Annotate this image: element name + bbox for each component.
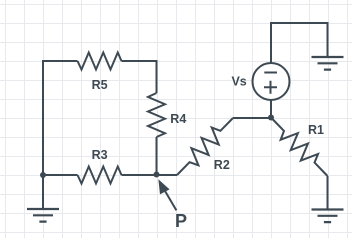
arrow pointing to node P [165, 191, 177, 211]
svg-text:R1: R1 [308, 123, 324, 137]
junction dot [40, 172, 46, 178]
svg-text:R4: R4 [170, 112, 186, 126]
voltage source Vs [253, 63, 290, 100]
svg-text:R5: R5 [92, 78, 108, 92]
resistor R2 [177, 118, 233, 175]
wire [43, 174, 78, 176]
ground [312, 57, 344, 70]
resistor R5 [78, 53, 122, 70]
svg-text:P: P [175, 211, 187, 231]
resistor R4 [148, 93, 165, 137]
svg-text:R3: R3 [92, 148, 108, 162]
svg-text:R2: R2 [214, 158, 230, 172]
wire [270, 100, 272, 117]
wire [122, 174, 157, 176]
wire [233, 117, 271, 119]
wire [156, 137, 158, 175]
resistor R3 [78, 167, 122, 184]
node P junction dot [154, 172, 160, 178]
wire [271, 23, 328, 63]
wire [43, 61, 78, 175]
ground [312, 210, 344, 223]
ground [42, 175, 44, 209]
wire [157, 174, 178, 176]
svg-text:Vs: Vs [231, 75, 246, 89]
resistor R1 [271, 118, 328, 177]
wire [327, 176, 329, 210]
wire [122, 61, 157, 93]
junction dot [268, 115, 274, 121]
